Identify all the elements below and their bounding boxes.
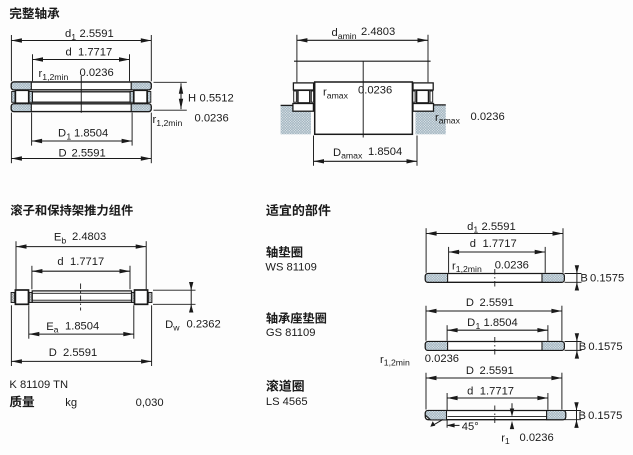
svg-text:2.4803: 2.4803 [72,231,106,243]
section title 滚子和保持架推力组件 (roller and cage thrust assembly) [11,204,133,216]
svg-text:H: H [188,93,196,105]
cage inner outline (assembly) [32,293,131,300]
svg-text:0.0236: 0.0236 [495,259,529,271]
bearing axis center line (top-left) [80,76,82,113]
right roller inner shaded strip [130,92,133,103]
shaft washer WS shaded end right [542,274,564,283]
svg-text:d: d [470,238,476,250]
svg-text:1.7717: 1.7717 [483,238,517,250]
svg-text:d: d [57,256,63,268]
axis center line (abutment) [362,61,364,137]
svg-text:0.5512: 0.5512 [200,93,234,105]
left roller outer shaded strip [12,92,15,103]
svg-text:LS 4565: LS 4565 [266,396,308,408]
svg-text:B: B [580,273,587,285]
housing washer GS shaded end left [425,342,447,351]
svg-text:0.0236: 0.0236 [520,432,554,444]
housing washer sectioned end left (shaded) [11,104,31,112]
left housing washer section (abutment) [293,104,314,112]
housing washer sectioned end right (shaded) [131,104,151,112]
left roller (abutment) [294,91,297,102]
mass row 质量 kg 0,030 [10,396,34,408]
center line (shaft washer WS) [494,269,496,287]
right roller of complete bearing [134,90,147,103]
housing washer of complete bearing [11,104,151,112]
dimension H 0.5512 (bearing height) [154,81,187,83]
r1 radius leader arrows (raceway ring LS) [511,403,513,409]
part label 轴垫圈 WS 81109 (shaft washer) [266,246,302,258]
right housing block (shaded) [416,105,446,134]
svg-text:D: D [466,365,474,377]
right roller outer shaded strip [148,92,151,103]
left roller of complete bearing [15,90,28,103]
right roller outer tab (assembly) [148,293,152,303]
svg-text:45°: 45° [462,421,479,433]
svg-text:GS 81109: GS 81109 [266,327,316,339]
assembly center line (dash-dot) [80,284,82,311]
svg-text:B: B [579,410,586,422]
svg-text:1.7717: 1.7717 [78,47,112,59]
svg-text:0.0236: 0.0236 [358,85,392,97]
svg-text:2.5591: 2.5591 [63,347,97,359]
left housing block (shaded) [281,105,311,134]
shaft washer WS cross-section [425,274,564,283]
right roller (abutment) [413,91,415,102]
svg-text:WS 81109: WS 81109 [265,261,316,273]
shaft step block (abutment) [315,82,413,134]
svg-text:1: 1 [476,321,481,331]
raceway ring LS cross-section [425,411,565,420]
left shaft washer section (abutment) [293,83,313,90]
svg-text:K 81109 TN: K 81109 TN [9,379,68,391]
svg-text:0,030: 0,030 [136,397,164,409]
section title 完整轴承 (complete bearing) [10,7,60,19]
dimension B 0.1575 (shaft washer WS) [565,273,582,275]
right roller inner strip (assembly) [132,293,135,303]
svg-text:1.7717: 1.7717 [70,256,104,268]
svg-text:2.5591: 2.5591 [72,148,106,160]
left roller outer tab (assembly) [11,293,15,303]
raceway line inside LS ring [448,416,547,418]
svg-text:D: D [58,128,66,140]
shaft washer of complete bearing [11,82,151,90]
left roller (assembly) [15,290,28,304]
dimension D_w 0.2362 (roller diameter) [153,289,196,291]
shaft washer WS shaded end left [425,274,447,283]
cage band between rollers [32,92,130,102]
svg-text:d: d [66,47,72,59]
svg-text:2.5591: 2.5591 [480,365,514,377]
right roller (assembly) [135,290,148,304]
svg-text:2.5591: 2.5591 [480,297,514,309]
part label 轴承座垫圈 GS 81109 (housing washer) [266,312,326,324]
center line (housing washer GS) [494,337,496,355]
raceway ring LS shaded end right [547,411,566,420]
raceway ring LS shaded end left with 45 deg chamfer [425,411,446,420]
svg-text:0.1575: 0.1575 [590,273,624,285]
section title 适宜的部件 (suitable parts) [266,204,330,216]
svg-text:0.0236: 0.0236 [80,67,114,79]
housing washer GS cross-section [425,342,564,351]
svg-text:2.5591: 2.5591 [80,28,114,40]
left roller inner shaded strip [29,92,32,103]
svg-text:0.2362: 0.2362 [187,318,221,330]
svg-text:0.0236: 0.0236 [425,353,459,365]
svg-text:2.5591: 2.5591 [482,221,516,233]
svg-text:1.7717: 1.7717 [480,385,514,397]
right shaft washer section (abutment) [413,83,433,90]
shaft end line (abutment) [294,60,431,62]
svg-text:1: 1 [66,131,71,141]
right housing washer section (abutment) [413,104,434,112]
shaft washer sectioned end right (shaded) [131,82,151,90]
svg-text:0.0236: 0.0236 [471,111,505,123]
svg-text:D: D [467,317,475,329]
svg-text:0.1575: 0.1575 [588,410,622,422]
svg-text:D: D [466,297,474,309]
svg-text:1.8504: 1.8504 [65,320,99,332]
svg-text:d: d [467,385,473,397]
housing washer GS shaded end right [542,342,564,351]
svg-text:0.1575: 0.1575 [588,341,622,353]
shaft washer sectioned end left (shaded) [11,82,31,90]
svg-text:1.8504: 1.8504 [368,146,402,158]
dimension B 0.1575 (raceway ring LS) [565,410,582,412]
svg-text:D: D [59,148,67,160]
svg-text:B: B [579,341,586,353]
cage outer outline (assembly) [32,291,131,302]
svg-text:1.8504: 1.8504 [484,317,518,329]
45 degree chamfer leader [434,419,444,425]
dimension B 0.1575 (housing washer GS) [565,341,582,343]
left roller inner strip (assembly) [29,293,32,303]
center line (raceway ring LS) [494,406,496,425]
part label 滚道圈 LS 4565 (raceway ring) [266,380,303,392]
svg-text:D: D [49,347,57,359]
svg-text:2.4803: 2.4803 [361,26,395,38]
svg-text:0.0236: 0.0236 [195,112,229,124]
svg-text:1.8504: 1.8504 [74,128,108,140]
svg-text:kg: kg [65,397,77,409]
